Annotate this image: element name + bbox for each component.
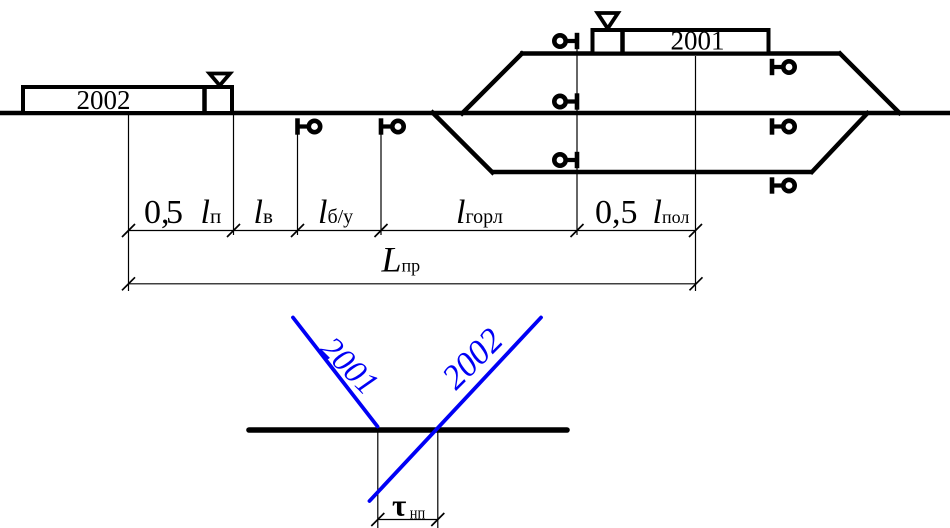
- svg-text:2002: 2002: [435, 321, 511, 397]
- svg-text:0,5 lп: 0,5 lп: [144, 194, 221, 231]
- svg-text:2001: 2001: [671, 26, 725, 56]
- svg-text:2001: 2001: [313, 330, 385, 402]
- svg-text:Lпр: Lпр: [381, 240, 421, 280]
- svg-text:lв: lв: [254, 194, 273, 231]
- svg-text:нп: нп: [410, 504, 426, 522]
- svg-text:2002: 2002: [77, 85, 131, 115]
- svg-text:lгорл: lгорл: [456, 194, 503, 231]
- svg-text:0,5 lпол: 0,5 lпол: [595, 194, 689, 231]
- svg-text:τ: τ: [392, 488, 406, 523]
- svg-text:lб/у: lб/у: [318, 194, 353, 231]
